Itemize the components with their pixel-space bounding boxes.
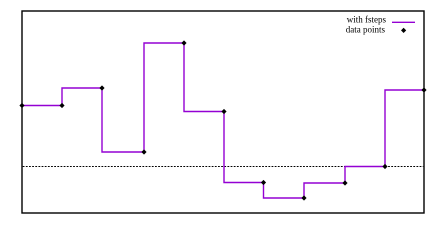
data point 5 bbox=[181, 40, 186, 45]
data point 1 bbox=[19, 103, 24, 108]
data point 8 bbox=[301, 195, 306, 200]
legend sample line: with fsteps bbox=[392, 21, 415, 23]
data point 9 bbox=[342, 180, 347, 185]
fsteps line bbox=[22, 43, 424, 198]
data point 4 bbox=[141, 149, 146, 154]
data point 7 bbox=[261, 180, 266, 185]
legend marker diamond bbox=[401, 28, 406, 33]
data point 6 bbox=[221, 109, 226, 114]
data point 11 bbox=[421, 87, 426, 92]
svg-text:data points: data points bbox=[346, 25, 386, 35]
svg-text:with fsteps: with fsteps bbox=[347, 15, 387, 25]
zero axis dotted line bbox=[23, 166, 424, 168]
plot border bbox=[22, 11, 424, 213]
data point 10 bbox=[382, 164, 387, 169]
data point 3 bbox=[99, 85, 104, 90]
data point 2 bbox=[59, 103, 64, 108]
